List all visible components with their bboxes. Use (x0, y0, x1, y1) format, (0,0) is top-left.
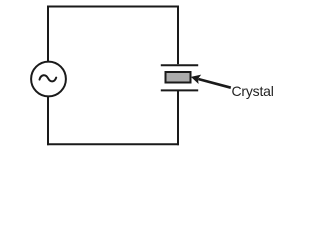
wire left lower (47, 97, 49, 146)
wire left upper (47, 6, 49, 63)
wire top (47, 6, 179, 8)
AC source V1 (31, 62, 66, 97)
wire right lower (177, 90, 179, 145)
crystal bottom plate (161, 89, 198, 91)
crystal body X1 (166, 72, 191, 83)
wire bottom (47, 143, 179, 145)
wire right upper (177, 6, 179, 65)
sine symbol (40, 75, 57, 81)
crystal top plate (161, 64, 198, 66)
label Crystal (232, 84, 274, 98)
arrow shaft (198, 79, 231, 88)
arrow head (191, 75, 201, 84)
